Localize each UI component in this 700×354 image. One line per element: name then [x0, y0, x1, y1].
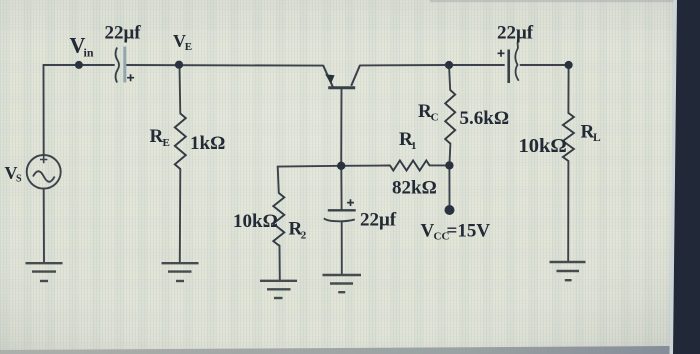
wire: RL bottom to ground — [567, 161, 569, 262]
node Vin — [75, 61, 83, 69]
wire: input cap to transistor emitter bend (through VE node) — [127, 64, 323, 67]
svg-text:L: L — [593, 132, 601, 144]
ground for RE — [162, 263, 199, 281]
wire: Vs top lead — [43, 65, 45, 155]
resistor RL — [563, 113, 574, 161]
svg-text:C: C — [431, 112, 439, 124]
svg-text:22μf: 22μf — [497, 23, 534, 44]
wire: RC top lead — [449, 65, 450, 90]
terminal Vcc — [445, 205, 455, 215]
label R1 — [399, 129, 417, 152]
capacitor C1 22uf input — [116, 47, 134, 83]
wire: transistor collector bend to node C — [360, 64, 449, 66]
svg-text:5.6kΩ: 5.6kΩ — [460, 108, 510, 129]
capacitor C3 22uf bypass — [324, 199, 356, 221]
svg-text:S: S — [16, 174, 22, 185]
source VS — [27, 155, 61, 189]
wire: Vs bottom lead to ground — [43, 189, 45, 262]
wire: top-left horizontal from Vs corner to input cap — [44, 64, 115, 66]
wire: base node to R1 left — [341, 165, 390, 167]
svg-text:1: 1 — [411, 140, 417, 152]
wire: bypass cap to ground — [341, 222, 343, 274]
wire: R2 top lead — [278, 167, 279, 193]
svg-text:E: E — [185, 41, 192, 53]
wire: node D down to Vcc terminal — [448, 165, 450, 205]
svg-text:2: 2 — [301, 230, 307, 242]
resistor RE — [175, 114, 186, 169]
svg-text:10kΩ: 10kΩ — [519, 135, 567, 157]
label R2 — [289, 219, 307, 242]
node C (top of RC) — [445, 61, 453, 69]
wire: VE node down to RE top — [179, 65, 182, 114]
ground for RL — [550, 262, 586, 280]
ground for bypass cap — [323, 275, 362, 292]
svg-text:V: V — [421, 221, 435, 242]
wire: base node down to bypass cap — [340, 166, 342, 209]
node D (RC bottom / R1 right) — [445, 161, 453, 169]
wire: node C to output cap — [449, 64, 504, 66]
resistor R1 — [390, 161, 430, 171]
label Vcc=15V — [421, 221, 491, 243]
label RE — [150, 126, 170, 149]
svg-text:82kΩ: 82kΩ — [392, 178, 437, 199]
wire: RE bottom to ground — [179, 169, 182, 262]
label Vs — [5, 163, 23, 185]
svg-text:1kΩ: 1kΩ — [190, 133, 225, 154]
wire: base lead from transistor bar to base node — [340, 89, 342, 166]
resistor RC — [445, 90, 455, 144]
wire: RL node down to RL top — [567, 65, 569, 113]
svg-text:=15V: =15V — [447, 221, 491, 242]
node output (top of RL) — [565, 61, 573, 69]
ground for R2 — [260, 281, 297, 298]
label RL — [581, 122, 602, 145]
resistor R2 — [273, 193, 284, 246]
svg-text:22μf: 22μf — [105, 23, 142, 44]
wire: RC bottom lead — [449, 144, 450, 166]
svg-text:R: R — [150, 126, 164, 147]
wire: R2 bottom to ground — [279, 246, 281, 281]
svg-text:in: in — [84, 46, 94, 60]
wire: R1 right to node D — [430, 164, 450, 166]
svg-text:E: E — [163, 137, 170, 149]
svg-text:10kΩ: 10kΩ — [233, 211, 278, 232]
node base — [337, 162, 345, 170]
label RC — [418, 101, 439, 124]
label Vin — [70, 33, 94, 60]
node VE — [175, 61, 183, 69]
capacitor C2 22uf output — [498, 41, 519, 83]
transistor Q1 — [323, 65, 360, 87]
wire: output cap to RL node — [521, 64, 569, 66]
label VE — [173, 31, 192, 53]
ground for Vs — [26, 263, 63, 281]
svg-text:22μf: 22μf — [360, 210, 397, 231]
wire: base node to R2 corner — [278, 165, 342, 168]
